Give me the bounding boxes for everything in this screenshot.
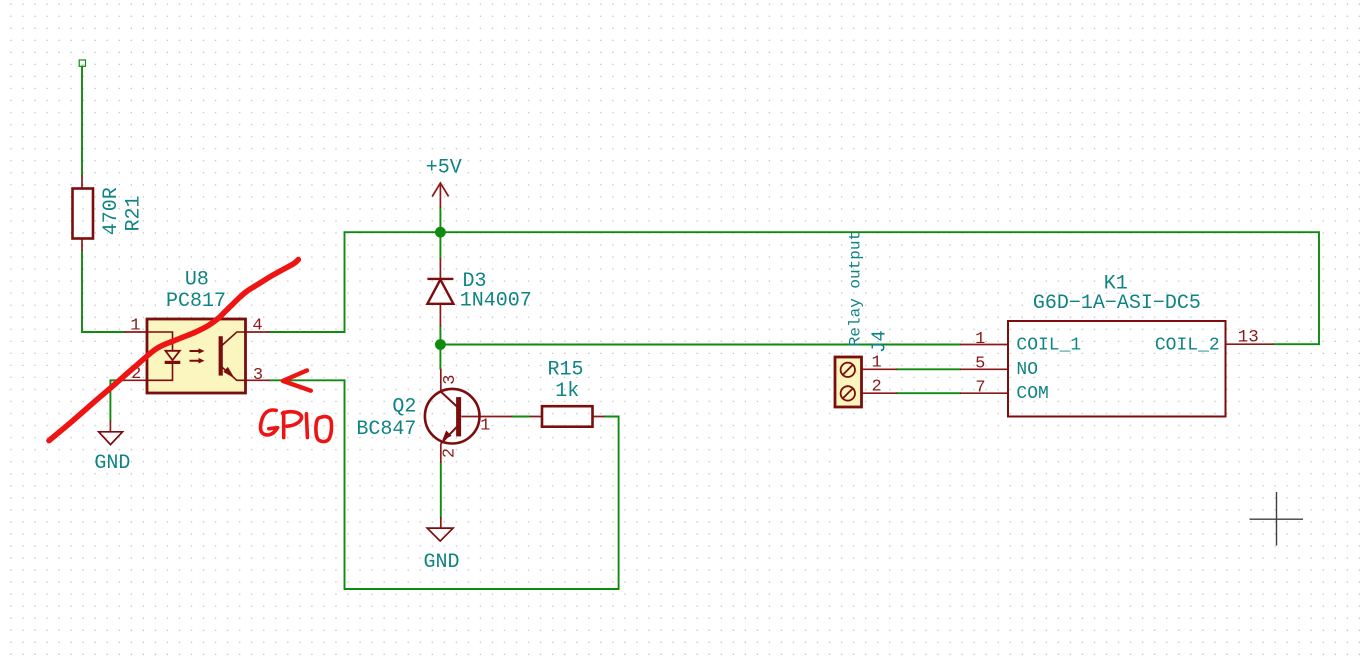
svg-text:G6D−1A−ASI−DC5: G6D−1A−ASI−DC5 [1033,292,1201,315]
svg-text:COM: COM [1016,384,1048,404]
svg-text:NO: NO [1016,360,1038,380]
svg-text:R15: R15 [547,359,583,382]
svg-text:U8: U8 [185,268,209,291]
svg-text:13: 13 [1238,328,1259,348]
svg-text:7: 7 [975,378,985,397]
svg-text:GND: GND [94,452,130,475]
svg-text:2: 2 [871,378,881,397]
svg-text:BC847: BC847 [356,418,416,441]
svg-text:2: 2 [441,448,460,458]
svg-text:J4: J4 [869,330,891,353]
svg-text:3: 3 [253,366,263,385]
svg-text:1: 1 [975,330,985,349]
svg-text:+5V: +5V [426,157,462,180]
svg-text:470R: 470R [100,187,123,235]
svg-text:4: 4 [252,317,262,336]
svg-text:COIL_1: COIL_1 [1016,335,1081,355]
svg-text:PC817: PC817 [166,290,226,313]
svg-text:R21: R21 [122,195,145,231]
svg-text:1: 1 [871,354,881,373]
svg-text:1N4007: 1N4007 [460,290,532,313]
svg-text:3: 3 [441,375,460,385]
svg-text:Relay output: Relay output [847,231,865,346]
svg-text:1: 1 [480,417,490,436]
svg-text:5: 5 [975,354,985,373]
svg-text:1: 1 [130,317,140,336]
svg-text:Q2: Q2 [392,396,416,419]
svg-text:COIL_2: COIL_2 [1155,335,1220,355]
svg-text:GND: GND [423,551,459,574]
svg-text:1k: 1k [555,380,579,403]
